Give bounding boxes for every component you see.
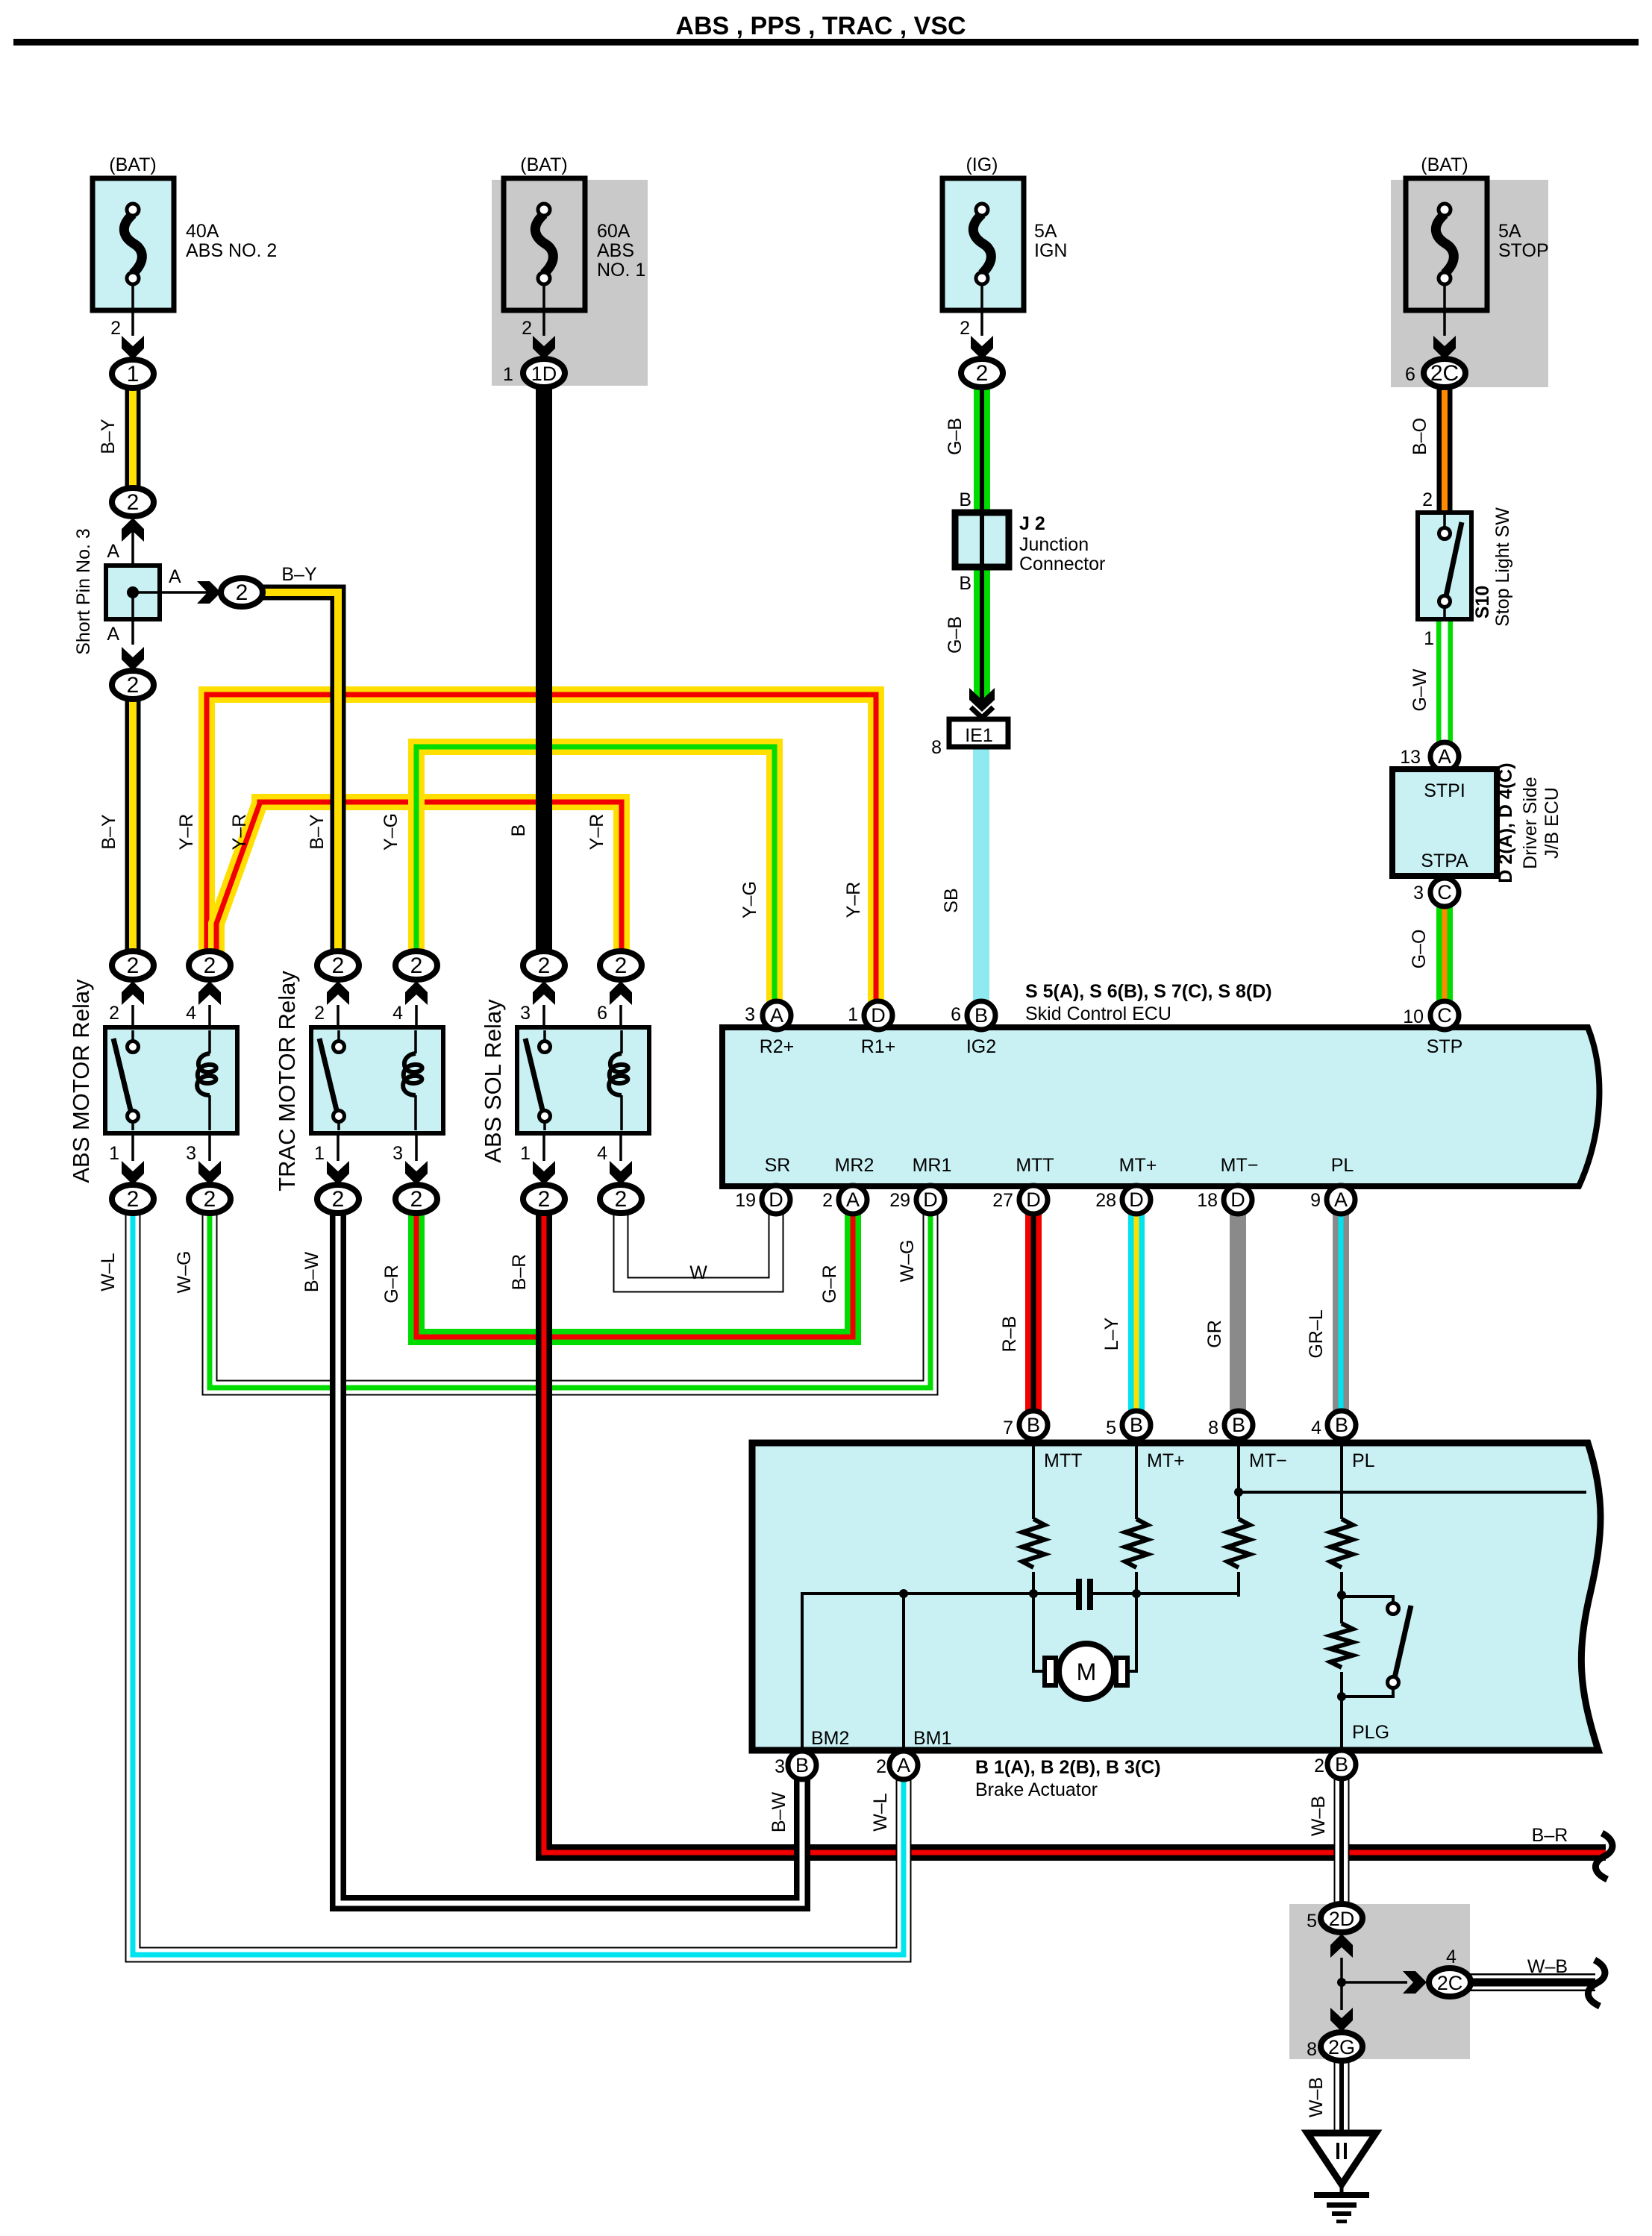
svg-text:2C: 2C [1437, 1972, 1463, 1994]
wire A short pin down lead [131, 592, 134, 645]
arrow ABS SOL relay pin6 [610, 981, 632, 1005]
svg-text:A: A [846, 1189, 860, 1211]
svg-text:1D: 1D [531, 363, 557, 385]
svg-text:B–O: B–O [1409, 418, 1430, 455]
connector 2 above ABS SOL relay pin6 [600, 951, 642, 980]
arrow ABS SOL relay pin4 [610, 1161, 632, 1185]
brake actuator box [752, 1443, 1601, 1750]
svg-text:19: 19 [735, 1190, 756, 1211]
svg-text:MR2: MR2 [835, 1155, 875, 1176]
arrow TRAC motor relay pin1 [327, 1161, 349, 1185]
svg-text:G–R: G–R [381, 1265, 402, 1303]
connector 2 below TRAC motor relay pin1 [317, 1185, 359, 1213]
arrow fuse3 output [971, 336, 993, 360]
double chevron arrow into IE1 [969, 688, 995, 712]
skid control ECU box [722, 1027, 1599, 1186]
arrow fuse2 output [533, 336, 555, 360]
svg-text:(BAT): (BAT) [520, 154, 567, 175]
svg-text:B 1(A), B 2(B), B 3(C): B 1(A), B 2(B), B 3(C) [975, 1757, 1161, 1778]
svg-text:A: A [107, 541, 119, 562]
svg-text:1: 1 [127, 362, 140, 386]
svg-text:28: 28 [1095, 1190, 1116, 1211]
svg-text:M: M [1077, 1659, 1097, 1685]
svg-text:1: 1 [314, 1143, 325, 1164]
svg-text:4: 4 [186, 1003, 196, 1024]
J2 through line [980, 513, 984, 567]
svg-text:8: 8 [1307, 2039, 1317, 2060]
connector A J/B ECU STPI [1430, 742, 1459, 771]
svg-text:D: D [769, 1189, 783, 1211]
wire GR ECU MT- to brake actuator pin8 [1230, 1209, 1246, 1418]
svg-text:PLG: PLG [1352, 1722, 1389, 1743]
arrow TRAC motor relay pin2 [327, 981, 349, 1005]
relay ABS MOTOR coil [197, 1030, 216, 1130]
svg-text:W–B: W–B [1308, 1796, 1329, 1836]
svg-text:IE1: IE1 [965, 725, 993, 746]
svg-text:W–B: W–B [1527, 1956, 1568, 1977]
svg-text:9: 9 [1310, 1190, 1321, 1211]
svg-text:2: 2 [332, 1187, 345, 1212]
connector B brake actuator PLG [1327, 1750, 1356, 1779]
svg-text:2: 2 [615, 953, 628, 978]
svg-text:MR1: MR1 [913, 1155, 952, 1176]
lead ABS SOL relay pin3 [542, 1005, 545, 1030]
connector D ECU MR1 [916, 1186, 945, 1214]
relay TRAC MOTOR switch [319, 1030, 345, 1130]
svg-text:B: B [1130, 1414, 1143, 1436]
svg-text:2: 2 [332, 953, 345, 978]
fuse 5A IGN [942, 178, 1024, 336]
svg-text:2C: 2C [1430, 361, 1459, 386]
svg-text:NO. 1: NO. 1 [597, 260, 645, 281]
junction dot PL lower [1337, 1692, 1346, 1701]
svg-text:2: 2 [236, 580, 248, 605]
svg-text:5: 5 [1106, 1418, 1116, 1438]
svg-text:G–R: G–R [819, 1265, 840, 1303]
wire Y-G TRAC motor relay pin4 to ECU R2+ [416, 747, 775, 1007]
svg-text:B–W: B–W [769, 1792, 789, 1833]
svg-text:5: 5 [1307, 1911, 1317, 1932]
svg-text:BM2: BM2 [811, 1728, 849, 1749]
svg-text:MTT: MTT [1016, 1155, 1054, 1176]
wire W ABS SOL relay pin4 to ECU SR [621, 1209, 776, 1285]
arrow into 2G [1330, 2008, 1353, 2032]
svg-text:B–Y: B–Y [98, 814, 119, 850]
wire G-O J/B ECU STPA to ECU STP [1436, 904, 1453, 1007]
connector 2 above TRAC motor relay pin4 [395, 951, 437, 980]
svg-text:L–Y: L–Y [1101, 1317, 1122, 1350]
connector D ECU MT+ [1122, 1186, 1151, 1214]
connector B brake actuator MT+ [1122, 1411, 1151, 1439]
connector 2G [1321, 2032, 1362, 2061]
connector 2 above ABS SOL relay pin3 [523, 951, 565, 980]
svg-text:MT+: MT+ [1147, 1450, 1185, 1471]
svg-text:BM1: BM1 [913, 1728, 951, 1749]
svg-text:W: W [689, 1262, 707, 1283]
svg-text:B–Y: B–Y [98, 419, 119, 454]
connector 2 below ABS motor relay pin3 [189, 1185, 231, 1213]
wire G-R TRAC motor relay pin3 to ECU MR2 [416, 1209, 853, 1337]
svg-text:3: 3 [186, 1143, 196, 1164]
driver side J/B ECU box [1392, 769, 1497, 876]
svg-text:A: A [1438, 745, 1451, 768]
arrow ABS motor relay pin4 [198, 981, 221, 1005]
svg-text:2: 2 [127, 673, 140, 698]
svg-text:3: 3 [775, 1756, 785, 1777]
stop light switch contacts [1439, 515, 1462, 619]
arrow ABS motor relay pin1 [122, 1161, 144, 1185]
svg-text:A: A [1334, 1189, 1348, 1211]
svg-text:2: 2 [876, 1756, 886, 1777]
svg-text:(BAT): (BAT) [109, 154, 156, 175]
svg-text:13: 13 [1400, 747, 1421, 768]
arrow ABS motor relay pin2 [122, 981, 144, 1005]
svg-text:2: 2 [615, 1187, 628, 1212]
connector 2 above ABS motor relay pin4 [189, 951, 231, 980]
relay ABS SOL coil [609, 1030, 628, 1130]
svg-text:ABS SOL Relay: ABS SOL Relay [480, 999, 506, 1163]
svg-text:Junction: Junction [1019, 534, 1089, 555]
svg-text:Skid Control ECU: Skid Control ECU [1025, 1003, 1171, 1024]
lead junction to 2C [1342, 1981, 1407, 1984]
connector B brake actuator MT− [1224, 1411, 1253, 1439]
fuse 5A STOP [1406, 178, 1487, 336]
svg-text:TRAC MOTOR Relay: TRAC MOTOR Relay [274, 971, 300, 1191]
svg-text:2: 2 [204, 1187, 216, 1212]
svg-text:B–Y: B–Y [307, 814, 328, 850]
wire B-R ABS SOL relay pin1 to right edge [544, 1209, 1606, 1853]
svg-text:2G: 2G [1328, 2036, 1355, 2058]
lead ABS SOL relay pin4 [619, 1133, 622, 1161]
arrow ABS SOL relay pin3 [533, 981, 555, 1005]
svg-text:Brake Actuator: Brake Actuator [975, 1779, 1098, 1800]
wire R-B ECU MTT to brake actuator pin7 [1025, 1209, 1042, 1418]
J2 junction connector box [955, 513, 1009, 567]
svg-text:3: 3 [520, 1003, 531, 1024]
relay ABS SOL switch [525, 1030, 551, 1130]
svg-text:2: 2 [127, 1187, 140, 1212]
svg-text:B: B [1335, 1753, 1348, 1776]
svg-text:(BAT): (BAT) [1421, 154, 1468, 175]
svg-text:Y–G: Y–G [381, 813, 401, 851]
lead ABS SOL relay pin6 [619, 1005, 622, 1030]
connector B brake actuator PL [1327, 1411, 1356, 1439]
lead junction to 2G [1340, 1982, 1343, 2010]
svg-text:ABS NO. 2: ABS NO. 2 [186, 240, 277, 261]
svg-text:B–Y: B–Y [281, 564, 317, 585]
junction dot bus MTT [1029, 1589, 1038, 1598]
svg-text:5A: 5A [1034, 221, 1057, 242]
connector B brake actuator BM2 [788, 1751, 816, 1779]
svg-text:2: 2 [204, 953, 216, 978]
junction dot ground wire [1337, 1978, 1346, 1987]
ground symbol [1307, 2133, 1376, 2223]
svg-text:R1+: R1+ [861, 1036, 896, 1057]
lead ABS motor relay pin4 [208, 1005, 211, 1030]
connector D ECU SR [762, 1186, 790, 1214]
svg-text:SR: SR [765, 1155, 791, 1176]
break symbol W-B wire [1588, 1960, 1605, 2006]
wire B-Y connector to ABS motor relay pin2 [125, 692, 141, 959]
svg-text:B: B [1027, 1414, 1040, 1436]
lead TRAC motor relay pin1 [337, 1133, 340, 1161]
svg-text:D 2(A), D 4(C): D 2(A), D 4(C) [1495, 762, 1516, 883]
svg-text:PL: PL [1352, 1450, 1375, 1471]
connector 2 above short pin [112, 488, 154, 516]
arrow TRAC motor relay pin3 [405, 1161, 428, 1185]
connector 2 below short pin [112, 671, 154, 699]
connector D ECU MT− [1224, 1186, 1252, 1214]
svg-text:2D: 2D [1329, 1908, 1355, 1930]
svg-text:STOP: STOP [1498, 240, 1549, 261]
svg-text:G–W: G–W [1409, 668, 1430, 711]
arrow below 2D [1330, 1934, 1353, 1958]
gray shading ground connectors [1289, 1904, 1470, 2059]
IE1 connector box [949, 719, 1008, 747]
svg-text:S10: S10 [1472, 586, 1493, 618]
svg-text:G–B: G–B [945, 418, 966, 455]
svg-text:R2+: R2+ [760, 1036, 795, 1057]
connector 1 below fuse1 [112, 360, 154, 388]
lead ABS motor relay pin3 [208, 1133, 211, 1161]
junction dot bus MT+ [1132, 1589, 1141, 1598]
svg-text:5A: 5A [1498, 221, 1521, 242]
svg-text:29: 29 [889, 1190, 910, 1211]
wire GR-L ECU PL to brake actuator pin4 [1333, 1209, 1349, 1418]
svg-text:7: 7 [1003, 1418, 1013, 1438]
svg-text:SB: SB [941, 888, 962, 912]
wire W-B brake actuator PLG to connector 2D [1334, 1774, 1350, 1907]
brake actuator internal wiring [802, 1446, 1586, 1747]
arrow ABS motor relay pin3 [198, 1161, 221, 1185]
svg-text:D: D [871, 1004, 886, 1027]
svg-text:2: 2 [538, 953, 551, 978]
svg-text:B: B [508, 824, 529, 837]
svg-text:ABS: ABS [597, 240, 634, 261]
svg-text:8: 8 [931, 737, 942, 758]
svg-text:Y–R: Y–R [843, 882, 864, 918]
svg-text:2: 2 [822, 1190, 833, 1211]
connector B brake actuator MTT [1019, 1411, 1048, 1439]
svg-text:STP: STP [1427, 1036, 1463, 1057]
svg-text:2: 2 [960, 318, 970, 339]
svg-text:MTT: MTT [1044, 1450, 1082, 1471]
svg-text:Y–R: Y–R [586, 814, 607, 851]
relay TRAC MOTOR coil [403, 1030, 422, 1130]
short pin No.3 box [106, 566, 160, 619]
svg-text:R–B: R–B [999, 1316, 1020, 1353]
connector 2C ground [1429, 1968, 1471, 1997]
junction dot MT- [1234, 1488, 1243, 1497]
svg-text:2: 2 [314, 1003, 325, 1024]
break symbol B-R wire [1595, 1833, 1612, 1879]
connector 2 below ABS SOL relay pin4 [600, 1185, 642, 1213]
svg-text:2: 2 [110, 318, 121, 339]
svg-text:J/B ECU: J/B ECU [1542, 787, 1562, 859]
svg-text:B: B [1335, 1414, 1348, 1436]
connector A ECU PL [1327, 1186, 1355, 1214]
svg-text:GR–L: GR–L [1306, 1309, 1327, 1358]
svg-text:B: B [974, 1004, 988, 1027]
connector 2 below fuse IGN [961, 359, 1003, 387]
svg-text:4: 4 [392, 1003, 403, 1024]
svg-text:B: B [1232, 1414, 1245, 1436]
connector A ECU R2+ [763, 1001, 791, 1030]
relay ABS MOTOR switch [113, 1030, 139, 1130]
svg-text:C: C [1437, 1004, 1452, 1027]
fuse 60A ABS NO.1 [504, 178, 585, 336]
wire A short pin right lead [133, 591, 212, 594]
wire SB IE1 to ECU IG2 [973, 745, 989, 1007]
wire Y-R ABS motor relay pin4 to ABS SOL relay pin6 [216, 802, 622, 959]
relay TRAC MOTOR box [311, 1027, 443, 1133]
svg-text:4: 4 [1311, 1418, 1321, 1438]
arrow TRAC motor relay pin4 [405, 981, 428, 1005]
svg-text:3: 3 [392, 1143, 403, 1164]
arrow into connector below short pin [122, 647, 144, 671]
svg-text:J 2: J 2 [1019, 513, 1045, 534]
connector C ECU STP [1430, 1001, 1459, 1030]
lead ABS motor relay pin2 [131, 1005, 134, 1030]
arrow ABS SOL relay pin1 [533, 1161, 555, 1185]
svg-text:B: B [795, 1754, 809, 1776]
arrow into 2C [1403, 1971, 1427, 1994]
svg-text:D: D [1026, 1189, 1041, 1211]
svg-text:GR: GR [1204, 1320, 1225, 1348]
short pin junction dot [127, 586, 139, 598]
connector A ECU MR2 [839, 1186, 867, 1214]
svg-text:(IG): (IG) [966, 154, 998, 175]
wire B-Y short pin to TRAC motor relay pin2 [260, 592, 338, 959]
svg-text:C: C [1437, 881, 1452, 904]
connector 2 right of short pin [221, 578, 263, 607]
svg-text:IGN: IGN [1034, 240, 1067, 261]
svg-text:B–R: B–R [1532, 1825, 1568, 1846]
svg-text:1: 1 [848, 1004, 858, 1025]
svg-text:D: D [1129, 1189, 1144, 1211]
lead ABS SOL relay pin1 [542, 1133, 545, 1161]
gray shading fuse ABS NO.1 [492, 180, 648, 386]
svg-text:W–L: W–L [870, 1793, 891, 1832]
fuse 40A ABS NO.2 [93, 178, 174, 336]
svg-text:Connector: Connector [1019, 554, 1105, 574]
svg-text:STPI: STPI [1424, 780, 1465, 801]
wire A short pin up lead [131, 531, 134, 569]
svg-text:4: 4 [597, 1143, 607, 1164]
arrow fuse1 output [122, 336, 144, 360]
motor M brake actuator [1045, 1644, 1127, 1699]
wire W-G ABS motor relay pin3 to ECU MR1 [210, 1209, 930, 1388]
svg-text:1: 1 [109, 1143, 119, 1164]
svg-text:D: D [1230, 1189, 1245, 1211]
connector 2 above ABS motor relay pin2 [112, 951, 154, 980]
svg-text:2: 2 [127, 490, 140, 515]
connector 2 above TRAC motor relay pin2 [317, 951, 359, 980]
svg-text:W–G: W–G [174, 1251, 195, 1294]
svg-text:B–W: B–W [301, 1252, 322, 1293]
wire B fuse ABS NO.1 to ABS SOL relay pin3 [536, 381, 552, 959]
svg-text:STPA: STPA [1421, 851, 1468, 871]
lead TRAC motor relay pin2 [337, 1005, 340, 1030]
svg-text:A: A [770, 1004, 783, 1027]
svg-text:A: A [897, 1754, 910, 1776]
svg-text:Y–R: Y–R [176, 814, 197, 851]
svg-text:MT−: MT− [1249, 1450, 1287, 1471]
connector 2 below ABS motor relay pin1 [112, 1185, 154, 1213]
lead TRAC motor relay pin4 [415, 1005, 418, 1030]
svg-text:A: A [107, 624, 119, 645]
svg-text:B–R: B–R [509, 1254, 530, 1291]
svg-text:3: 3 [745, 1004, 755, 1025]
svg-text:1: 1 [520, 1143, 531, 1164]
connector D ECU MTT [1019, 1186, 1048, 1214]
arrow into connector right of short pin [197, 581, 221, 604]
wire Y-R ABS motor relay pin4 to ECU R1+ [207, 695, 876, 1007]
wire B-Y fuse1 to connector 2 [125, 381, 141, 496]
svg-text:6: 6 [597, 1003, 607, 1024]
svg-text:2: 2 [1422, 489, 1433, 510]
svg-text:2: 2 [522, 318, 532, 339]
lead ABS motor relay pin1 [131, 1133, 134, 1161]
connector 2C below fuse STOP [1424, 359, 1465, 387]
lead 2D to junction [1340, 1958, 1343, 1982]
svg-text:ABS , PPS , TRAC , VSC: ABS , PPS , TRAC , VSC [675, 12, 966, 40]
wire G-B fuse IGN to IE1 [974, 381, 990, 701]
connector B ECU IG2 [967, 1001, 995, 1030]
svg-text:D: D [923, 1189, 938, 1211]
gray shading fuse STOP [1391, 180, 1548, 387]
svg-text:W–G: W–G [897, 1240, 918, 1283]
svg-text:2: 2 [1314, 1756, 1324, 1776]
connector 2 below ABS SOL relay pin1 [523, 1185, 565, 1213]
svg-text:W–B: W–B [1306, 2077, 1327, 2117]
svg-text:2: 2 [538, 1187, 551, 1212]
connector 2 below TRAC motor relay pin3 [395, 1185, 437, 1213]
relay ABS SOL box [517, 1027, 649, 1133]
lead TRAC motor relay pin3 [415, 1133, 418, 1161]
svg-text:ABS MOTOR Relay: ABS MOTOR Relay [68, 979, 94, 1183]
junction dot bus BM1 [899, 1589, 908, 1598]
connector A brake actuator BM1 [889, 1751, 918, 1779]
svg-text:MT+: MT+ [1119, 1155, 1157, 1176]
svg-text:G–B: G–B [945, 616, 966, 654]
connector 2D [1321, 1904, 1362, 1932]
wire W-B connector 2C to right edge [1467, 1973, 1595, 1991]
arrow fuse4 output [1433, 336, 1456, 360]
svg-text:6: 6 [951, 1004, 961, 1025]
svg-text:1: 1 [1424, 628, 1434, 649]
svg-text:6: 6 [1405, 364, 1415, 385]
svg-text:B: B [959, 573, 972, 594]
svg-text:2: 2 [127, 953, 140, 978]
svg-text:Stop Light SW: Stop Light SW [1492, 507, 1513, 627]
svg-text:G–O: G–O [1409, 930, 1430, 969]
junction dot PL upper [1337, 1591, 1346, 1600]
svg-text:4: 4 [1446, 1947, 1457, 1967]
svg-text:1: 1 [503, 364, 513, 385]
svg-text:2: 2 [976, 361, 989, 386]
svg-text:B: B [959, 489, 972, 510]
svg-text:Driver Side: Driver Side [1520, 777, 1541, 869]
svg-text:S 5(A), S 6(B), S 7(C), S 8(D): S 5(A), S 6(B), S 7(C), S 8(D) [1025, 981, 1272, 1002]
arrow into connector above short pin [122, 518, 144, 542]
wire G-W stop light switch to J/B ECU STPI [1436, 618, 1453, 746]
connector C J/B ECU STPA [1430, 878, 1459, 906]
svg-text:IG2: IG2 [966, 1036, 996, 1057]
svg-text:Y–R: Y–R [229, 814, 250, 851]
svg-text:3: 3 [1413, 883, 1424, 904]
wire W-L ABS motor relay pin1 to brake actuator BM1 [133, 1209, 904, 1955]
